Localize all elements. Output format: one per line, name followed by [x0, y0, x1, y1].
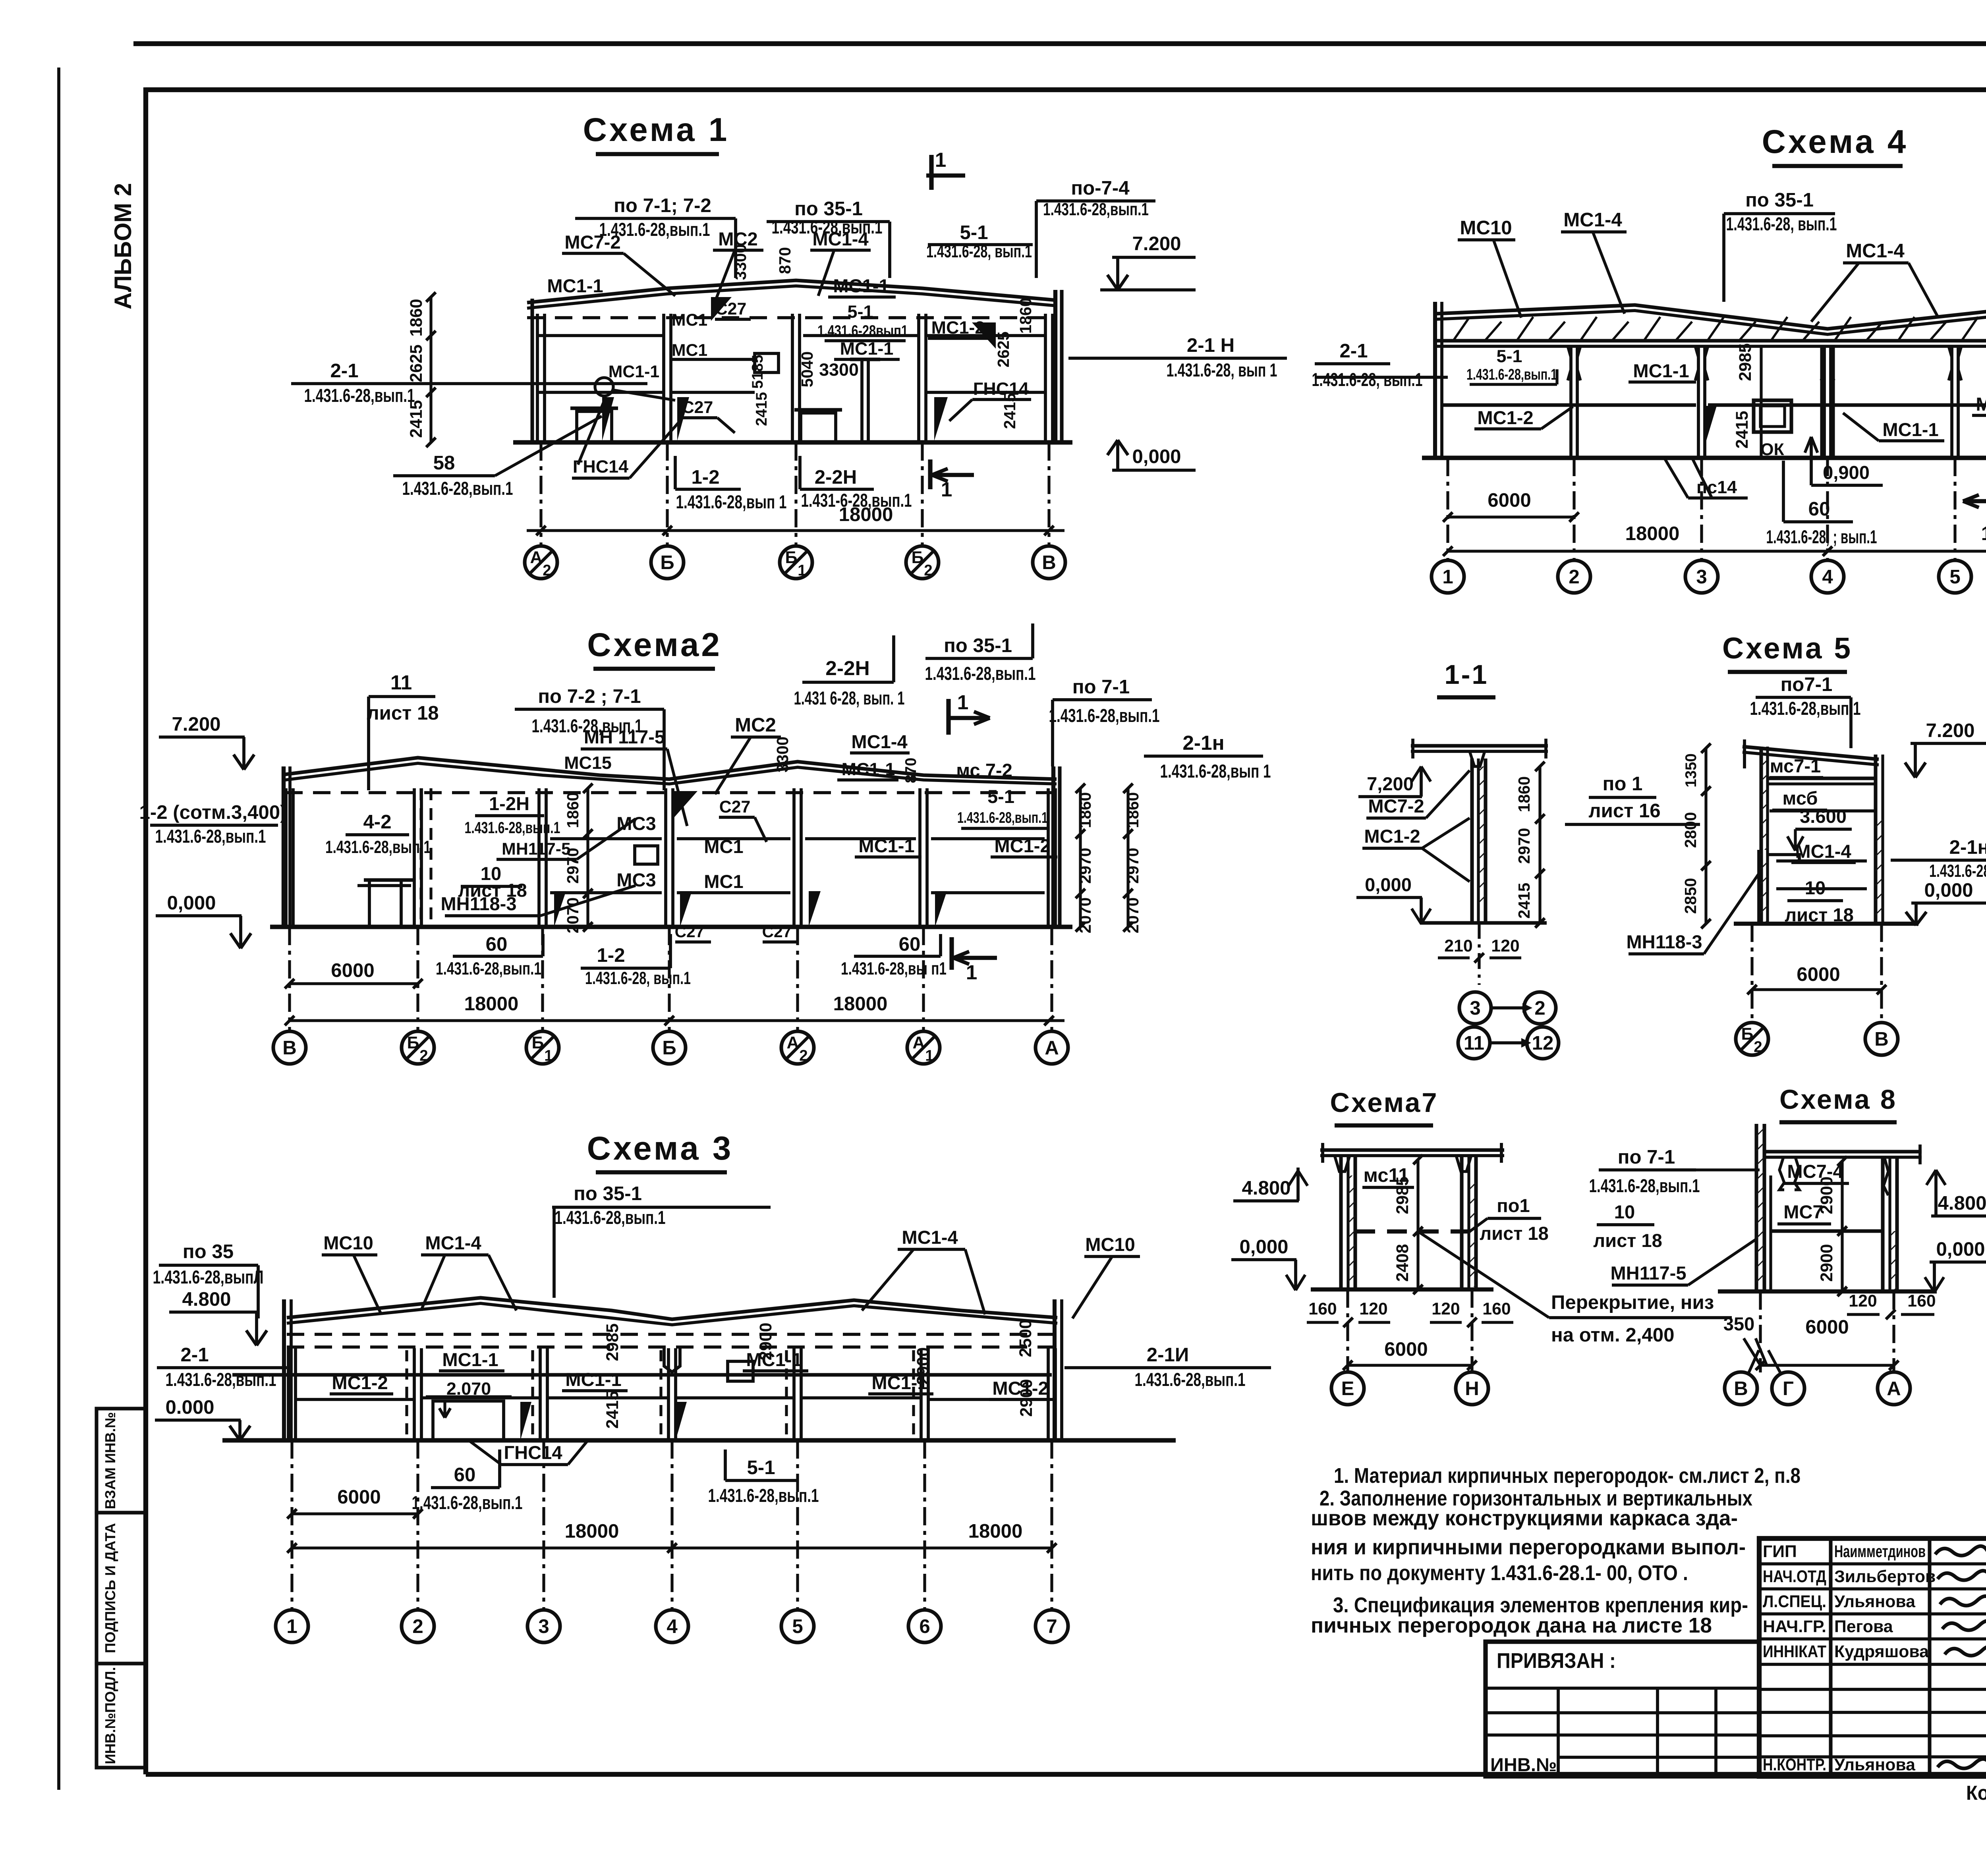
- schema 8 ground line: [1718, 1289, 1937, 1293]
- svg-text:18000: 18000: [839, 504, 893, 525]
- svg-text:60: 60: [899, 933, 921, 955]
- schema 3 roof top chord: [287, 1298, 1057, 1319]
- schema 4 dim ticks interior: [1760, 346, 1762, 458]
- svg-text:1.431.6-28,вып 1: 1.431.6-28,вып 1: [676, 491, 787, 512]
- svg-text:18000: 18000: [1625, 523, 1680, 544]
- svg-text:0,000: 0,000: [1132, 446, 1181, 467]
- schema 8 beam tee detail: [1779, 1157, 1784, 1190]
- svg-text:11: 11: [1464, 1032, 1484, 1054]
- svg-text:МС3: МС3: [616, 869, 656, 890]
- schema 1 black wedge consoles: [711, 297, 732, 321]
- svg-text:МС1-1: МС1-1: [547, 275, 603, 296]
- schema 5 roof sloping beam: [1743, 747, 1879, 759]
- svg-text:2-1: 2-1: [330, 360, 358, 382]
- title block outer border: [1759, 1538, 1986, 1776]
- svg-text:1: 1: [935, 148, 947, 171]
- schema 3 dashed panel joints: [405, 1350, 408, 1440]
- svg-text:2-2Н: 2-2Н: [825, 656, 869, 679]
- svg-text:1860: 1860: [407, 299, 426, 336]
- svg-text:3.600: 3.600: [1800, 806, 1847, 827]
- svg-text:1.431.6-28,выпЛ: 1.431.6-28,выпЛ: [153, 1266, 264, 1287]
- svg-text:МС1: МС1: [672, 311, 707, 330]
- schema 2 axis lines: [288, 927, 291, 1031]
- svg-text:1: 1: [1442, 566, 1453, 588]
- schema 1 wall panel lines: [537, 334, 663, 337]
- svg-text:МС2: МС2: [735, 714, 776, 736]
- svg-text:4.800: 4.800: [1938, 1192, 1986, 1214]
- svg-text:2-1: 2-1: [1339, 340, 1368, 362]
- svg-text:1860: 1860: [1016, 298, 1035, 334]
- svg-text:Б: Б: [662, 1037, 676, 1059]
- svg-text:В: В: [1734, 1378, 1748, 1399]
- svg-text:2900: 2900: [914, 1347, 933, 1385]
- svg-text:1.431.6-28,вып.1: 1.431.6-28,вып.1: [925, 663, 1036, 684]
- svg-text:0,000: 0,000: [1936, 1238, 1985, 1260]
- schema 4 portal column axis4: [1820, 346, 1824, 458]
- svg-text:Б: Б: [912, 548, 924, 567]
- svg-text:4.800: 4.800: [182, 1288, 231, 1310]
- svg-text:Схема 8: Схема 8: [1779, 1084, 1897, 1115]
- svg-text:МС1-4: МС1-4: [1563, 209, 1622, 231]
- svg-text:5-1: 5-1: [747, 1457, 775, 1478]
- svg-text:ИННIКАТ: ИННIКАТ: [1763, 1642, 1826, 1661]
- schema 3 black wedges: [520, 1402, 531, 1440]
- schema 3 window bay4: [728, 1361, 753, 1381]
- svg-text:6000: 6000: [1805, 1316, 1849, 1338]
- svg-text:1.431.6-28,вып.1: 1.431.6-28,вып.1: [325, 837, 431, 857]
- svg-text:2625: 2625: [407, 344, 426, 382]
- svg-text:2: 2: [543, 562, 551, 579]
- svg-text:С27: С27: [682, 398, 713, 417]
- svg-text:Б: Б: [1741, 1025, 1754, 1044]
- svg-text:Ульянова: Ульянова: [1834, 1755, 1916, 1774]
- svg-text:3: 3: [538, 1615, 549, 1637]
- schema 1 section mark 1 top: [929, 155, 933, 190]
- schema 3 axis circles: [276, 1610, 308, 1642]
- title block personnel table verticals: [1829, 1538, 1832, 1776]
- schema 1 section mark 1 bottom: [928, 459, 932, 489]
- svg-text:5-1: 5-1: [987, 786, 1014, 807]
- svg-text:нить по документу 1.431.6-2: нить по документу 1.431.6-28.1- 00, ОТО …: [1311, 1561, 1688, 1585]
- svg-text:А: А: [913, 1033, 925, 1052]
- title block personnel rows: [1759, 1562, 1986, 1565]
- svg-text:2: 2: [1569, 566, 1579, 588]
- svg-text:1.431 6-28, вып. 1: 1.431 6-28, вып. 1: [794, 687, 905, 708]
- svg-text:1-1: 1-1: [1444, 659, 1488, 690]
- svg-text:160: 160: [1907, 1291, 1936, 1310]
- svg-text:Схема 3: Схема 3: [587, 1129, 734, 1167]
- svg-text:3300: 3300: [731, 244, 750, 280]
- svg-text:60: 60: [454, 1464, 476, 1486]
- svg-text:лист 18: лист 18: [367, 702, 439, 724]
- svg-text:3300: 3300: [773, 737, 792, 773]
- svg-text:1: 1: [286, 1615, 297, 1637]
- schema 4 wall band line: [1442, 403, 1696, 407]
- stamp box ВЗАМ ИНВ №: [97, 1409, 146, 1513]
- svg-text:4-2: 4-2: [363, 811, 391, 833]
- svg-text:4: 4: [667, 1615, 678, 1637]
- svg-text:МС3: МС3: [616, 813, 656, 834]
- schema 4 column caps: [1568, 346, 1571, 380]
- svg-text:МН118-3: МН118-3: [440, 893, 516, 914]
- svg-text:6000: 6000: [331, 959, 374, 981]
- svg-text:МС1-2: МС1-2: [1364, 826, 1420, 847]
- svg-text:ния и кирпичными перегород: ния и кирпичными перегородками выпол-: [1311, 1536, 1746, 1559]
- svg-text:2070: 2070: [1076, 897, 1094, 934]
- svg-text:2: 2: [419, 1047, 428, 1064]
- svg-text:2-1: 2-1: [180, 1344, 209, 1366]
- svg-text:по1: по1: [1497, 1195, 1530, 1216]
- svg-text:1.431.6-28вып1: 1.431.6-28вып1: [817, 322, 908, 340]
- svg-text:2.070: 2.070: [446, 1378, 491, 1399]
- svg-text:ОК: ОК: [1760, 440, 1784, 459]
- schema 2 dashed ceiling line: [285, 791, 1057, 794]
- svg-text:1: 1: [925, 1047, 933, 1064]
- svg-text:6000: 6000: [1488, 489, 1531, 511]
- sheet outer trim line top: [133, 41, 1986, 46]
- svg-text:МС10: МС10: [1460, 217, 1512, 239]
- svg-text:МС10: МС10: [1085, 1234, 1135, 1255]
- svg-text:10: 10: [1614, 1201, 1635, 1222]
- svg-text:1860: 1860: [1515, 776, 1533, 813]
- svg-text:2: 2: [1534, 997, 1545, 1019]
- svg-text:1.431.6-28, вып.1: 1.431.6-28, вып.1: [1726, 213, 1837, 234]
- svg-text:С27: С27: [719, 797, 751, 816]
- svg-text:2: 2: [799, 1047, 808, 1064]
- svg-text:МС7-2: МС7-2: [1368, 795, 1424, 816]
- schema 4 eaves line: [1435, 339, 1986, 342]
- svg-text:5040: 5040: [798, 351, 816, 388]
- svg-text:1.431.6-28, вып.1: 1.431.6-28, вып.1: [585, 968, 691, 988]
- svg-text:2970: 2970: [1124, 848, 1142, 884]
- svg-text:870: 870: [776, 247, 794, 274]
- svg-text:1. Материал кирпичных перего: 1. Материал кирпичных перегородок- см.ли…: [1334, 1464, 1801, 1488]
- svg-text:МС1-4: МС1-4: [1795, 841, 1851, 862]
- schema 1 outer wall left: [530, 299, 534, 442]
- svg-text:МС1-4: МС1-4: [902, 1227, 958, 1248]
- schema 1 axis lines below: [539, 442, 542, 546]
- svg-text:С27: С27: [762, 923, 792, 941]
- svg-text:лист 18: лист 18: [1593, 1230, 1662, 1251]
- svg-text:120: 120: [1432, 1299, 1460, 1318]
- svg-text:1.431.6-28,вып.1: 1.431.6-28,вып.1: [1466, 366, 1557, 383]
- schema 7 ground line: [1311, 1287, 1493, 1291]
- svg-text:Схема7: Схема7: [1330, 1087, 1438, 1118]
- svg-text:МС1-2: МС1-2: [332, 1372, 388, 1393]
- schema 2 bench detail left bay: [364, 878, 415, 882]
- svg-text:Кудряшова: Кудряшова: [1834, 1642, 1929, 1661]
- svg-text:2415: 2415: [1733, 411, 1752, 448]
- schema 4 outer walls: [1433, 302, 1437, 458]
- svg-text:1: 1: [544, 1047, 553, 1064]
- schema 5 right wall: [1874, 755, 1877, 924]
- svg-text:210: 210: [1444, 936, 1472, 955]
- svg-text:мс 7-2: мс 7-2: [956, 760, 1012, 781]
- schema 3 columns: [287, 1348, 290, 1440]
- svg-text:1860: 1860: [1124, 792, 1142, 828]
- svg-text:МН118-3: МН118-3: [1626, 931, 1702, 952]
- svg-text:2: 2: [412, 1615, 423, 1637]
- svg-text:МС1-1: МС1-1: [609, 362, 659, 381]
- schema 4 axis lines: [1446, 458, 1449, 561]
- section 1-1 wall column: [1470, 759, 1474, 923]
- svg-text:пичных перегородок дана на: пичных перегородок дана на листе 18: [1311, 1614, 1712, 1637]
- svg-text:2070: 2070: [1124, 897, 1142, 934]
- schema 2 ground line: [270, 924, 1072, 929]
- svg-text:2970: 2970: [1076, 848, 1094, 884]
- svg-text:Е: Е: [1341, 1378, 1354, 1399]
- svg-text:лист 16: лист 16: [1588, 800, 1660, 822]
- svg-text:1.431.6-28,вып.1: 1.431.6-28,вып.1: [1589, 1175, 1700, 1196]
- svg-text:1.431.6-28,вып.1: 1.431.6-28,вып.1: [772, 216, 883, 237]
- svg-text:МС1: МС1: [704, 871, 743, 892]
- svg-text:Г: Г: [1783, 1378, 1794, 1399]
- svg-text:на отм. 2,400: на отм. 2,400: [1551, 1324, 1674, 1346]
- svg-text:ГНС14: ГНС14: [504, 1442, 562, 1463]
- svg-text:2: 2: [1754, 1038, 1762, 1056]
- svg-text:ВЗАМ ИНВ.№: ВЗАМ ИНВ.№: [102, 1412, 118, 1509]
- svg-text:4: 4: [1822, 566, 1833, 588]
- svg-text:5185: 5185: [749, 355, 766, 389]
- schema 3 wall panel lines: [232, 1373, 1052, 1376]
- svg-text:МС1-1: МС1-1: [1882, 419, 1938, 440]
- svg-text:0,900: 0,900: [1823, 462, 1870, 483]
- svg-text:1-2 (сотм.3,400): 1-2 (сотм.3,400): [139, 801, 287, 823]
- svg-text:Копировал: Нестеянова, Зщ, 244: Копировал: Нестеянова, Зщ, 24475-02 20 Ф…: [1966, 1781, 1986, 1804]
- svg-text:2900: 2900: [1817, 1244, 1836, 1282]
- schema 4 roof top chord: [1435, 305, 1986, 329]
- title block privyazan box: [1486, 1642, 1759, 1776]
- svg-text:Пегова: Пегова: [1834, 1617, 1893, 1636]
- schema 7 top beam: [1320, 1148, 1504, 1152]
- schema 2 columns: [284, 788, 288, 927]
- schema 4 roof web ticks: [1454, 317, 1470, 340]
- schema 8 interior band line: [1771, 1229, 1883, 1233]
- schema 5 left dim chain: [1704, 748, 1707, 924]
- schema 7 dim 2985 2408: [1416, 1160, 1419, 1289]
- svg-text:по 7-1: по 7-1: [1072, 676, 1130, 698]
- svg-text:МС1-4: МС1-4: [851, 731, 907, 752]
- svg-text:ИНВ.№: ИНВ.№: [1490, 1754, 1557, 1775]
- schema 8 axis circles: [1725, 1372, 1757, 1405]
- svg-text:5: 5: [1949, 566, 1960, 588]
- svg-text:МС1: МС1: [704, 836, 743, 857]
- schema 2 left dim chain: [586, 788, 589, 927]
- schema 1 axis circles: [525, 546, 557, 579]
- schema 3 door opening bay2: [433, 1401, 504, 1440]
- svg-text:6000: 6000: [337, 1486, 381, 1508]
- svg-text:МС1-1: МС1-1: [842, 759, 895, 779]
- schema 3 roof dashed lines: [287, 1333, 1057, 1336]
- svg-text:58: 58: [433, 452, 455, 474]
- drawing frame bottom border: [146, 1772, 1986, 1777]
- stamp box ПОДПИСЬ И ДАТА: [97, 1513, 146, 1664]
- svg-text:1.431.6-28,вып.1: 1.431.6-28,вып.1: [155, 826, 266, 847]
- svg-text:Б: Б: [532, 1033, 544, 1052]
- drawing frame top border: [146, 87, 1986, 92]
- svg-text:Ульянова: Ульянова: [1834, 1592, 1916, 1611]
- svg-text:Схема 5: Схема 5: [1722, 631, 1853, 665]
- svg-text:1.431.6-28, ; вып.1: 1.431.6-28, ; вып.1: [1766, 526, 1877, 547]
- svg-text:МС1-1: МС1-1: [1633, 360, 1689, 381]
- svg-text:2-2Н: 2-2Н: [815, 466, 857, 488]
- svg-text:6: 6: [919, 1615, 930, 1637]
- title block signatures squiggles: [1935, 1546, 1986, 1556]
- svg-text:1: 1: [957, 691, 969, 714]
- schema 5 ground line: [1734, 922, 1918, 926]
- svg-text:МС1-1: МС1-1: [1976, 394, 1986, 415]
- svg-text:по 35-1: по 35-1: [1745, 189, 1814, 211]
- svg-text:2: 2: [924, 562, 932, 579]
- schema 2 outer walls: [282, 766, 286, 927]
- svg-text:А: А: [1045, 1037, 1059, 1059]
- svg-text:5-1: 5-1: [848, 301, 873, 322]
- svg-text:ПОДПИСЬ И ДАТА: ПОДПИСЬ И ДАТА: [102, 1523, 118, 1653]
- schema 7 axis circles: [1331, 1372, 1364, 1405]
- svg-text:швов между конструкциями: швов между конструкциями каркаса зда-: [1311, 1507, 1738, 1530]
- section 1-1 dim chain: [1538, 766, 1541, 923]
- svg-text:ГИП: ГИП: [1763, 1542, 1797, 1561]
- svg-text:Н.КОНТР.: Н.КОНТР.: [1763, 1755, 1826, 1774]
- schema 3 axis lines: [290, 1440, 293, 1611]
- svg-text:1.431.6-28,вып.1: 1.431.6-28,вып.1: [402, 478, 513, 499]
- svg-text:МС1-1: МС1-1: [442, 1349, 498, 1370]
- svg-text:7: 7: [1046, 1615, 1057, 1637]
- svg-text:Схема 1: Схема 1: [583, 111, 730, 148]
- svg-text:1860: 1860: [564, 792, 582, 828]
- svg-text:ГНС14: ГНС14: [973, 378, 1029, 399]
- svg-text:МС10: МС10: [323, 1232, 373, 1253]
- svg-text:по7-1: по7-1: [1781, 674, 1833, 695]
- svg-text:В: В: [1874, 1028, 1889, 1050]
- svg-text:120: 120: [1359, 1299, 1387, 1318]
- svg-text:Б: Б: [660, 552, 674, 573]
- svg-text:7,200: 7,200: [1367, 773, 1414, 794]
- svg-text:А: А: [1887, 1378, 1901, 1399]
- svg-text:МС1-2: МС1-2: [1477, 407, 1533, 428]
- schema 7 left wall: [1339, 1156, 1343, 1289]
- svg-text:11: 11: [390, 671, 412, 694]
- svg-text:МС1-2: МС1-2: [931, 317, 985, 338]
- svg-text:Б: Б: [407, 1033, 419, 1052]
- schema 2 small window: [635, 846, 658, 864]
- svg-text:18000: 18000: [968, 1520, 1023, 1542]
- svg-text:4.800: 4.800: [1242, 1177, 1291, 1199]
- section 1-1 axis line: [1478, 923, 1480, 985]
- svg-text:по 35-1: по 35-1: [944, 635, 1012, 656]
- svg-text:6000: 6000: [1797, 963, 1840, 985]
- sheet outer trim line left: [57, 68, 60, 1790]
- svg-text:2900: 2900: [1017, 1379, 1036, 1417]
- schema 4 black wedge near axis3: [1705, 406, 1717, 446]
- svg-text:2985: 2985: [1393, 1176, 1412, 1214]
- svg-text:2800: 2800: [1681, 812, 1700, 848]
- svg-text:Схема2: Схема2: [587, 626, 722, 663]
- schema 4 ground line: [1422, 455, 1986, 460]
- svg-text:по 35: по 35: [183, 1241, 234, 1262]
- svg-text:3: 3: [1470, 997, 1480, 1019]
- schema 1 roof dashed ceiling line: [527, 316, 1057, 319]
- schema 7 dashed floor line 2400: [1355, 1229, 1469, 1233]
- schema 5 axis lines: [1750, 924, 1753, 1023]
- svg-text:0,000: 0,000: [1365, 874, 1412, 895]
- svg-text:В: В: [1042, 552, 1056, 573]
- svg-text:2625: 2625: [994, 332, 1012, 368]
- schema 2 section mark 1 bottom: [949, 937, 954, 970]
- schema 2 roof top chord: [285, 758, 1057, 779]
- schema 8 right column: [1881, 1157, 1884, 1291]
- schema 2 section mark 1 top: [946, 699, 950, 735]
- svg-text:2408: 2408: [1393, 1244, 1412, 1282]
- svg-text:Перекрытие, низ: Перекрытие, низ: [1551, 1291, 1714, 1313]
- schema 1 ground line: [513, 440, 1072, 444]
- svg-text:МС1-1: МС1-1: [840, 338, 894, 359]
- svg-text:МС15: МС15: [564, 753, 612, 773]
- schema 2 wall lines and details: [550, 837, 662, 840]
- schema 1 roof top chord: [527, 280, 1057, 303]
- schema 8 top beam: [1764, 1150, 1922, 1153]
- svg-text:1-2: 1-2: [597, 944, 625, 966]
- svg-text:18000: 18000: [565, 1520, 619, 1542]
- svg-text:А: А: [787, 1033, 799, 1052]
- svg-text:5: 5: [792, 1615, 803, 1637]
- svg-text:лист 18: лист 18: [1785, 904, 1854, 925]
- svg-text:1.431.6-28,вып.1: 1.431.6-28,вып.1: [555, 1207, 666, 1228]
- schema 2 right dim chains: [1079, 788, 1082, 927]
- schema 2 axis circles: [273, 1031, 306, 1064]
- svg-text:МС1-4: МС1-4: [1846, 240, 1905, 262]
- schema 8 dim 2900 2900: [1841, 1161, 1843, 1291]
- svg-text:350: 350: [1723, 1313, 1755, 1334]
- svg-text:МН 117-5: МН 117-5: [584, 726, 665, 747]
- section 1-1 ground line: [1420, 921, 1547, 924]
- schema 3 ground line: [222, 1438, 1176, 1442]
- svg-text:1.431.6-28, вып.1: 1.431.6-28, вып.1: [926, 241, 1032, 261]
- svg-text:1.431.6-28,вып.1: 1.431.6-28,вып.1: [465, 818, 560, 837]
- svg-text:18000: 18000: [464, 993, 519, 1015]
- svg-text:по 1: по 1: [1603, 773, 1643, 795]
- svg-text:0,000: 0,000: [1239, 1236, 1288, 1258]
- svg-text:870: 870: [902, 758, 920, 783]
- schema 5 interior lines: [1768, 776, 1876, 780]
- svg-text:1.431.6-28,вып.1: 1.431.6-28,вып.1: [957, 809, 1048, 826]
- svg-text:2900: 2900: [756, 1322, 775, 1360]
- svg-text:А: А: [530, 548, 543, 567]
- schema 3 outer walls: [282, 1299, 286, 1440]
- schema 5 axis circles: [1736, 1023, 1768, 1055]
- svg-text:по-7-4: по-7-4: [1071, 177, 1130, 199]
- svg-text:2-1н: 2-1н: [1949, 836, 1986, 858]
- svg-text:С27: С27: [715, 299, 747, 318]
- schema 4 columns: [1569, 346, 1573, 458]
- schema 1 outer wall right: [1053, 290, 1057, 442]
- svg-text:1: 1: [966, 961, 978, 984]
- schema 8 axis lines: [1759, 1291, 1762, 1372]
- svg-text:18000: 18000: [833, 993, 888, 1015]
- schema 7 right wall: [1460, 1156, 1463, 1289]
- svg-text:1.431.6-28,вып.1: 1.431.6-28,вып.1: [1049, 705, 1160, 726]
- svg-text:МС7-2: МС7-2: [564, 232, 620, 253]
- svg-text:Схема 4: Схема 4: [1762, 123, 1909, 160]
- schema 4 window ОК: [1754, 400, 1791, 432]
- svg-text:мс7-1: мс7-1: [1770, 755, 1821, 776]
- svg-text:10: 10: [1805, 877, 1826, 898]
- svg-text:1.431.6-28,вып.1: 1.431.6-28,вып.1: [436, 958, 541, 979]
- svg-text:0,000: 0,000: [1924, 879, 1973, 901]
- svg-text:1.431.6-28,вып.1: 1.431.6-28,вып.1: [304, 385, 415, 406]
- svg-text:1.431.6-28,вып.1: 1.431.6-28,вып.1: [1135, 1369, 1246, 1390]
- svg-text:1-2: 1-2: [691, 466, 719, 488]
